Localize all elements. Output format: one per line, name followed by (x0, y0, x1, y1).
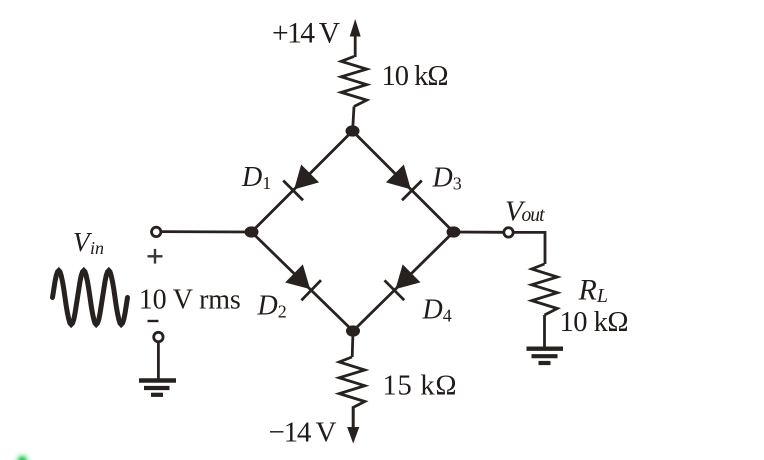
diode D3 (387, 165, 422, 200)
plus sign of source (148, 249, 163, 264)
wire bridge edge bottom-right (353, 232, 454, 331)
svg-text:D3: D3 (432, 163, 462, 194)
svg-text:15 kΩ: 15 kΩ (383, 371, 457, 402)
+14 V supply arrow (350, 19, 361, 57)
wire lower terminal to ground (157, 342, 160, 379)
node right junction (447, 226, 461, 237)
marker (green dot bottom-left) (17, 455, 27, 460)
wire bottom node to 15k resistor (351, 331, 355, 357)
ground (input side) (139, 381, 176, 395)
output terminal Vout (open circle) (504, 228, 513, 237)
wire bridge edge bottom-left (252, 232, 354, 331)
svg-text:D1: D1 (241, 162, 271, 193)
svg-text:10 kΩ: 10 kΩ (382, 61, 449, 92)
ground (output side) (527, 349, 564, 363)
-14 V supply arrow (347, 408, 359, 444)
node top junction (346, 125, 360, 136)
resistor 15 kOhm (bottom pull-down) (339, 357, 365, 408)
svg-text:D4: D4 (422, 295, 452, 326)
svg-text:out: out (522, 205, 546, 226)
wire bridge edge top-right (353, 131, 454, 232)
resistor RL 10 kOhm (532, 264, 558, 315)
svg-text:+14 V: +14 V (272, 17, 340, 49)
diode D4 (385, 265, 420, 300)
node bottom junction (346, 325, 360, 336)
wire bridge edge top-left (252, 131, 353, 232)
wire resistor to top node (353, 107, 354, 132)
node left junction (245, 226, 259, 237)
wire output terminal to RL top (513, 232, 545, 264)
resistor 10 kOhm (top pull-up) (341, 56, 367, 106)
wire input terminal to left node (162, 230, 252, 233)
wire RL to ground (543, 315, 546, 347)
minus sign of source (148, 320, 159, 322)
sine source Vin waveform (53, 271, 128, 325)
svg-text:10 kΩ: 10 kΩ (560, 307, 629, 338)
svg-text:−14 V: −14 V (269, 417, 337, 449)
input terminal (open circle, +) (152, 227, 161, 236)
svg-text:RL: RL (578, 274, 608, 308)
svg-text:D2: D2 (257, 291, 287, 322)
wire right node to output terminal (454, 231, 504, 234)
diode D2 (286, 265, 321, 300)
lower input terminal (open circle) (154, 332, 163, 341)
svg-text:in: in (90, 238, 104, 258)
diode D1 (283, 165, 318, 200)
svg-text:10 V rms: 10 V rms (139, 285, 241, 316)
